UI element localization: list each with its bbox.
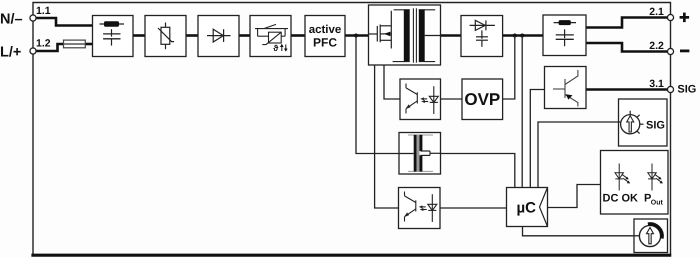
choke L1 <box>100 23 125 25</box>
svg-text:L/+: L/+ <box>0 45 21 61</box>
terminal 1.1 <box>30 15 36 21</box>
active PFC block <box>305 16 345 57</box>
terminal 2.2 <box>667 48 673 54</box>
label + <box>680 16 690 19</box>
wire input N to filter <box>35 18 93 26</box>
terminal 1.2 <box>30 48 36 54</box>
wire output filter to terminal 2.1 <box>586 18 668 28</box>
svg-text:OVP: OVP <box>464 90 500 109</box>
SIG potentiometer block <box>619 99 668 146</box>
wire DC bus node down to microcontroller <box>521 36 523 188</box>
optocoupler U1 <box>400 79 441 120</box>
svg-text:PFC: PFC <box>313 35 337 49</box>
wire transistor to terminal 3.1 SIG <box>587 88 668 91</box>
LED P out <box>648 164 663 191</box>
transformer T1 secondary winding <box>419 9 435 11</box>
wire transistor base to microcontroller <box>530 90 544 188</box>
wire aux transformer to microcontroller <box>441 154 515 188</box>
wire varistor to diode <box>186 34 198 37</box>
NTC thermistor <box>262 32 281 45</box>
terminal 2.1 <box>667 14 673 20</box>
main transformer block <box>369 5 441 65</box>
diode D1 <box>207 29 231 42</box>
wire transformer bottom to optocoupler U2 <box>375 65 399 208</box>
fuse F1 <box>64 40 86 48</box>
aux transformer T2 <box>400 153 414 155</box>
node on DC bus 1 <box>513 34 517 38</box>
svg-text:Out: Out <box>651 199 664 206</box>
wire microcontroller to LED block <box>548 185 602 208</box>
LED indicator block <box>601 151 669 215</box>
output filter block <box>543 15 586 56</box>
wire OVP to DC bus node <box>503 36 515 100</box>
potentiometer P1 dial <box>621 115 640 134</box>
wire microcontroller to output potentiometer <box>523 227 642 236</box>
enclosure left border <box>32 18 34 255</box>
output potentiometer block <box>634 219 668 253</box>
svg-text:2.1: 2.1 <box>649 6 664 18</box>
svg-text:3.1: 3.1 <box>649 78 664 90</box>
svg-text:DC OK: DC OK <box>603 193 639 205</box>
wire rectifier to output filter <box>503 34 543 37</box>
optocoupler U2 <box>399 188 441 229</box>
svg-text:1.2: 1.2 <box>36 38 51 50</box>
svg-text:N/–: N/– <box>0 12 23 28</box>
svg-text:ϑ: ϑ <box>273 43 278 53</box>
LED DC OK <box>615 164 630 191</box>
wire optocoupler U2 to microcontroller <box>440 207 507 209</box>
wire stub to dial <box>619 121 622 123</box>
OVP block <box>462 79 503 120</box>
wire node down to aux transformer <box>356 36 399 154</box>
potentiometer P2 <box>639 225 660 246</box>
svg-text:SIG: SIG <box>677 83 696 95</box>
wire through fuse <box>64 43 85 45</box>
transformer T1 primary winding <box>394 9 410 11</box>
auxiliary transformer block <box>399 133 441 175</box>
wire optocoupler U1 to OVP <box>441 98 463 100</box>
MOSFET Q1 <box>369 11 391 49</box>
wire stub to dial P2 <box>634 235 642 237</box>
svg-text:SIG: SIG <box>646 119 665 131</box>
capacitor C3 <box>564 29 566 38</box>
wire PFC to transformer <box>345 34 369 37</box>
svg-text:2.2: 2.2 <box>649 40 664 52</box>
wire secondary to block edge <box>425 35 440 37</box>
node on DC bus 2 <box>520 34 524 38</box>
relay bypass contact <box>255 24 288 36</box>
inrush current limiter block <box>250 16 291 57</box>
varistor RV1 <box>158 23 174 50</box>
transistor Q2 <box>553 70 578 107</box>
choke L2 <box>554 22 576 24</box>
svg-text:1.1: 1.1 <box>36 5 51 17</box>
svg-text:µC: µC <box>517 200 537 217</box>
wire fuse to filter <box>85 43 93 46</box>
wire output filter to terminal 2.2 <box>586 43 668 52</box>
wire filter to varistor <box>133 34 145 37</box>
output rectifier block <box>461 16 503 57</box>
enclosure bottom rail <box>31 254 671 257</box>
terminal 3.1 <box>667 86 673 92</box>
input filter block <box>93 16 134 57</box>
varistor block <box>145 16 186 57</box>
microcontroller block <box>507 188 548 227</box>
capacitor C2 <box>476 30 488 46</box>
transistor block <box>545 67 587 109</box>
capacitor C1 <box>111 29 113 36</box>
transformer T1 core <box>412 8 414 62</box>
wire diode to inrush limiter <box>239 34 250 37</box>
wire SIG potentiometer to microcontroller <box>538 122 621 188</box>
wire transformer to rectifier <box>441 34 462 37</box>
label minus <box>680 50 689 53</box>
wire input L to fuse to filter <box>35 44 64 51</box>
node after PFC <box>354 34 358 38</box>
svg-text:active: active <box>309 24 342 36</box>
wire inrush limiter to PFC <box>291 34 305 37</box>
diode D2 <box>470 20 495 30</box>
diode block <box>198 16 239 57</box>
wire transformer bottom to optocoupler U1 <box>384 65 400 99</box>
